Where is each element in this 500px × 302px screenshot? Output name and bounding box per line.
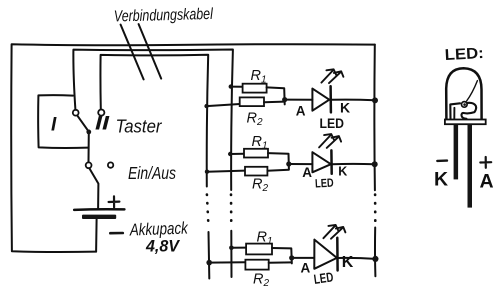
svg-text:R1: R1: [252, 134, 268, 152]
svg-text:K: K: [340, 100, 350, 116]
svg-text:4,8V: 4,8V: [145, 238, 181, 256]
svg-text:I: I: [51, 115, 57, 136]
svg-text:LED: LED: [320, 115, 345, 131]
svg-text:R2: R2: [252, 177, 268, 195]
svg-text:K: K: [342, 254, 354, 271]
svg-text:LED: LED: [313, 269, 335, 287]
svg-text:A: A: [301, 261, 311, 276]
svg-text:Taster: Taster: [116, 117, 163, 137]
svg-text:Ein/Aus: Ein/Aus: [128, 163, 176, 183]
svg-text:Verbindungskabel: Verbindungskabel: [114, 6, 214, 26]
svg-text:II: II: [95, 114, 110, 135]
svg-text:A: A: [302, 165, 312, 180]
svg-text:K: K: [434, 169, 448, 191]
svg-text:R1: R1: [257, 230, 273, 248]
svg-text:R2: R2: [253, 272, 269, 290]
svg-text:A: A: [480, 171, 494, 193]
svg-text:K: K: [338, 165, 347, 179]
svg-text:LED:: LED:: [444, 45, 484, 64]
svg-text:LED: LED: [315, 176, 334, 191]
svg-text:A: A: [296, 104, 306, 119]
svg-text:R1: R1: [251, 68, 267, 86]
svg-text:R2: R2: [247, 111, 263, 129]
svg-text:Akkupack: Akkupack: [129, 218, 190, 239]
